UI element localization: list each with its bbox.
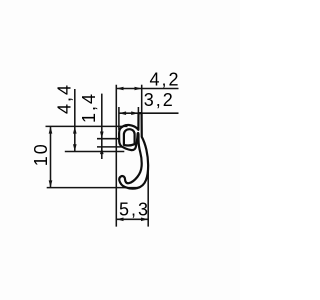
svg-text:1,4: 1,4 — [79, 92, 99, 123]
svg-text:4,2: 4,2 — [150, 69, 181, 89]
svg-text:4,4: 4,4 — [55, 83, 75, 114]
svg-text:10: 10 — [31, 142, 51, 166]
svg-text:3,2: 3,2 — [144, 90, 175, 110]
svg-text:5,3: 5,3 — [119, 199, 150, 219]
